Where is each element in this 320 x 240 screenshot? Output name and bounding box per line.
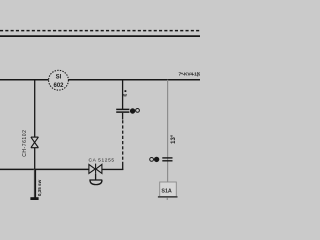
svg-text:0,35 sw: 0,35 sw bbox=[37, 179, 42, 196]
svg-text:13°: 13° bbox=[171, 134, 177, 144]
svg-text:SI: SI bbox=[56, 75, 62, 81]
svg-text:w: w bbox=[122, 93, 127, 98]
svg-text:S1A: S1A bbox=[161, 188, 172, 194]
svg-text:CH-76102: CH-76102 bbox=[22, 130, 28, 157]
svg-text:602: 602 bbox=[53, 83, 64, 89]
svg-text:7*-KV4-1(9: 7*-KV4-1(9 bbox=[179, 71, 200, 77]
svg-text:CA 51255: CA 51255 bbox=[89, 157, 115, 163]
